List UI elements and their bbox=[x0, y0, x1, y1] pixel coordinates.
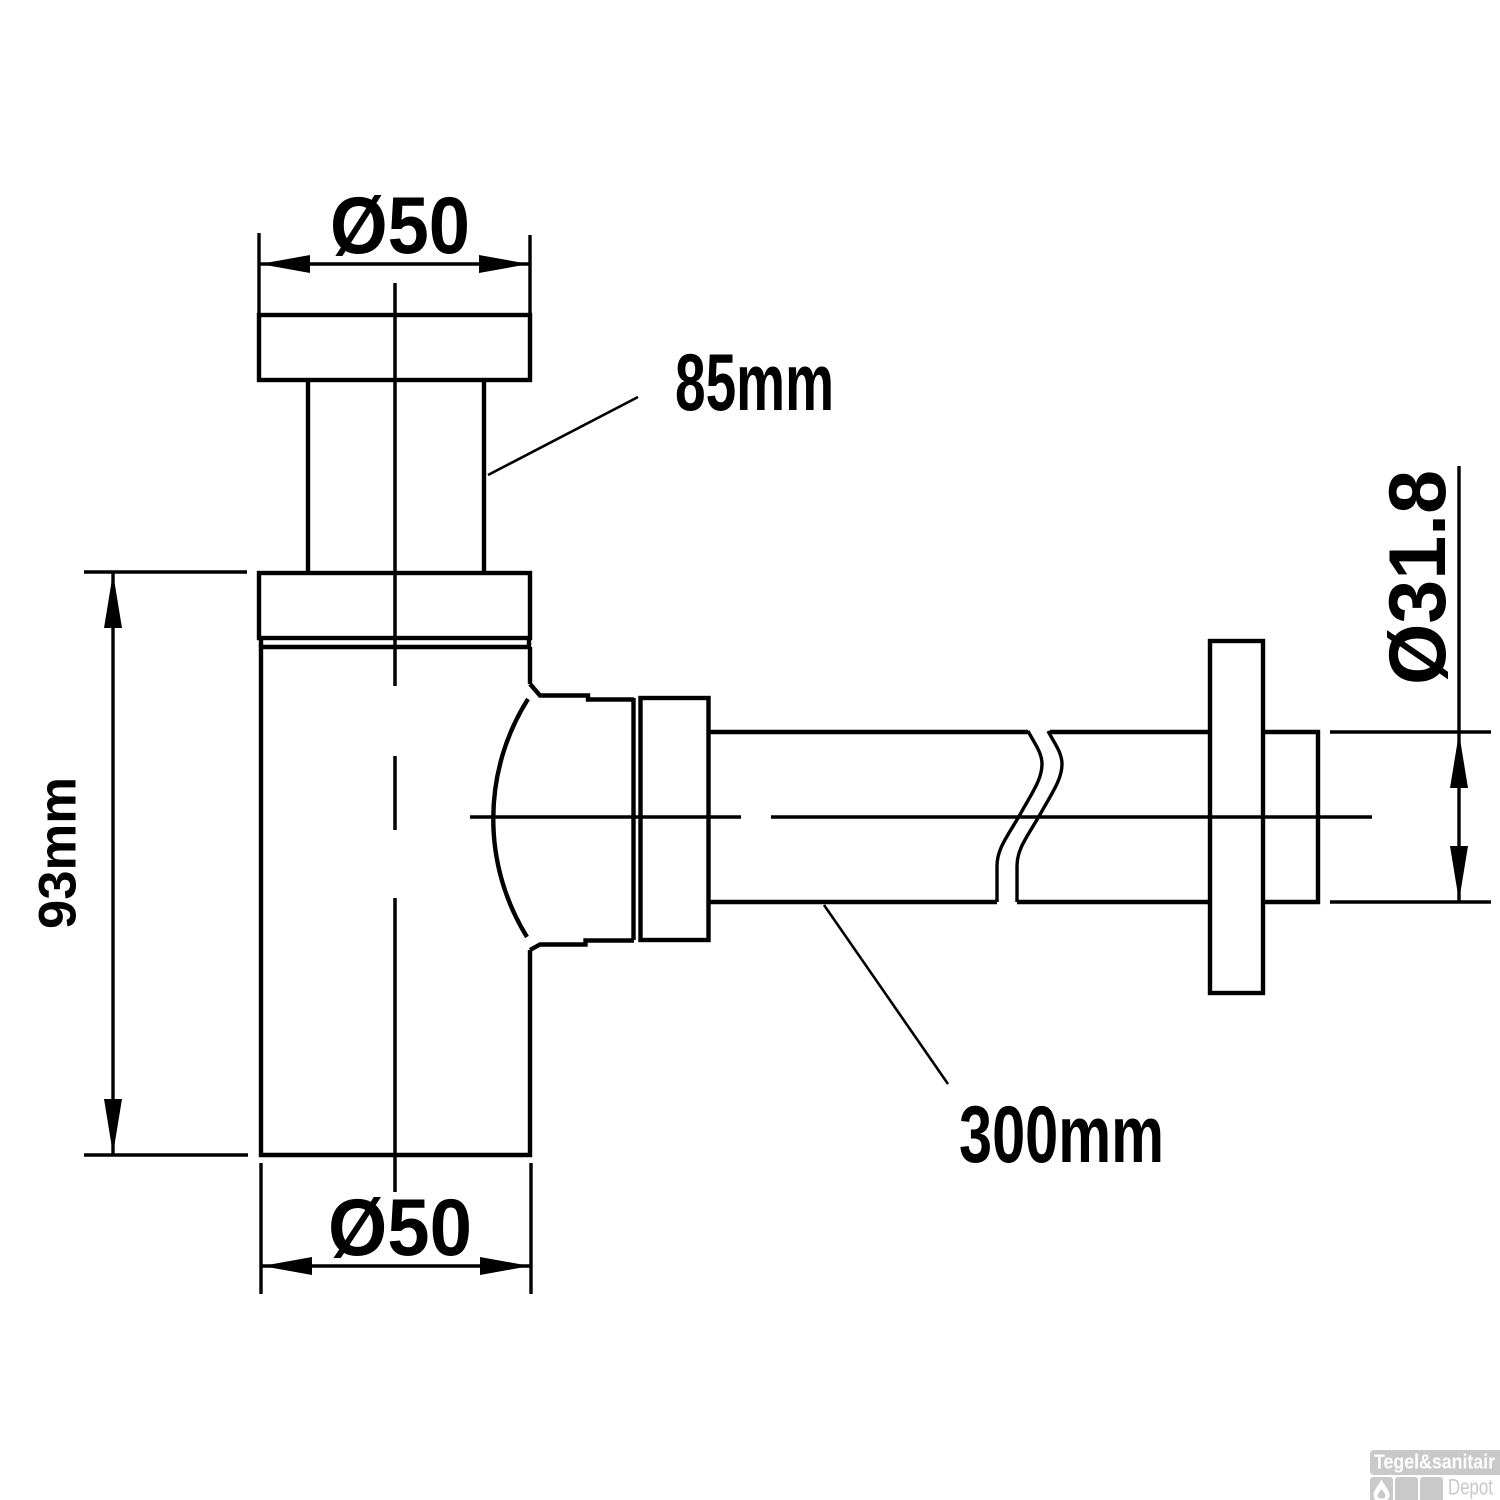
arrow up bbox=[104, 573, 122, 628]
watermark square 1 bbox=[1370, 1477, 1393, 1500]
arrow right bbox=[479, 255, 529, 273]
arrow right bottom bbox=[480, 1257, 530, 1275]
trap body bbox=[261, 647, 530, 1155]
pipe break wave 2 bbox=[1017, 731, 1062, 902]
body centerline bbox=[393, 283, 397, 1192]
watermark drop icon bbox=[1374, 1480, 1390, 1500]
wall flange bbox=[1210, 641, 1263, 993]
tailpiece pipe right wall bbox=[482, 380, 486, 571]
dimension line bbox=[259, 262, 530, 265]
leader 85mm bbox=[488, 397, 638, 475]
gasket line 1 bbox=[631, 698, 635, 940]
extension line left bbox=[257, 233, 260, 313]
arrow down pipe bbox=[1450, 846, 1468, 901]
arrow up pipe bbox=[1450, 733, 1468, 788]
pipe top edge left of break bbox=[708, 730, 1028, 734]
arrow left bottom bbox=[262, 1257, 312, 1275]
watermark square 3 bbox=[1420, 1477, 1443, 1500]
watermark square 2 bbox=[1395, 1477, 1418, 1500]
svg-text:93mm: 93mm bbox=[29, 777, 88, 929]
extension line bottom bbox=[84, 1153, 248, 1156]
watermark banner bbox=[1370, 1450, 1500, 1475]
dimension Ø50 top bbox=[259, 233, 530, 313]
svg-text:Ø50: Ø50 bbox=[330, 181, 470, 271]
wall socket bbox=[1263, 732, 1318, 902]
extension line right bbox=[529, 1163, 532, 1294]
slip flange bbox=[259, 573, 530, 638]
extension line top bbox=[84, 570, 247, 573]
pipe top edge right of break bbox=[1050, 730, 1210, 734]
pipe break wave 1 bbox=[997, 731, 1042, 902]
svg-text:Depot: Depot bbox=[1448, 1475, 1493, 1500]
pipe bottom edge left of break bbox=[708, 900, 997, 904]
tailpiece pipe left wall bbox=[306, 380, 310, 571]
svg-text:300mm: 300mm bbox=[959, 1090, 1164, 1180]
svg-text:Tegel&sanitair: Tegel&sanitair bbox=[1374, 1452, 1495, 1474]
outlet dome arc bbox=[493, 699, 528, 937]
top flange bbox=[259, 315, 530, 380]
pipe centerline bbox=[470, 815, 1372, 819]
extension line left bbox=[259, 1163, 262, 1294]
extension line right bbox=[528, 235, 531, 313]
outlet stub top outline bbox=[530, 684, 634, 700]
dimension line bbox=[261, 1264, 531, 1267]
dimension Ø50 bottom bbox=[261, 1163, 531, 1294]
svg-text:85mm: 85mm bbox=[675, 338, 834, 428]
extension line top bbox=[1330, 730, 1491, 733]
dimension line bbox=[1457, 466, 1460, 902]
compression nut bbox=[641, 698, 709, 940]
flange/body joint tick left bbox=[259, 638, 263, 647]
arrow down bbox=[104, 1099, 122, 1154]
dimension 93mm bbox=[84, 572, 248, 1155]
dimension line bbox=[111, 572, 114, 1155]
flange/body joint tick right bbox=[527, 638, 531, 647]
outlet stub bottom outline bbox=[530, 941, 634, 951]
svg-text:Ø31.8: Ø31.8 bbox=[1373, 470, 1463, 685]
svg-text:Ø50: Ø50 bbox=[328, 1183, 472, 1273]
dimension Ø31.8 bbox=[1330, 466, 1491, 902]
pipe bottom edge right of break bbox=[1017, 900, 1210, 904]
extension line bottom bbox=[1330, 900, 1491, 903]
arrow left bbox=[260, 255, 310, 273]
leader 300mm bbox=[824, 905, 948, 1084]
